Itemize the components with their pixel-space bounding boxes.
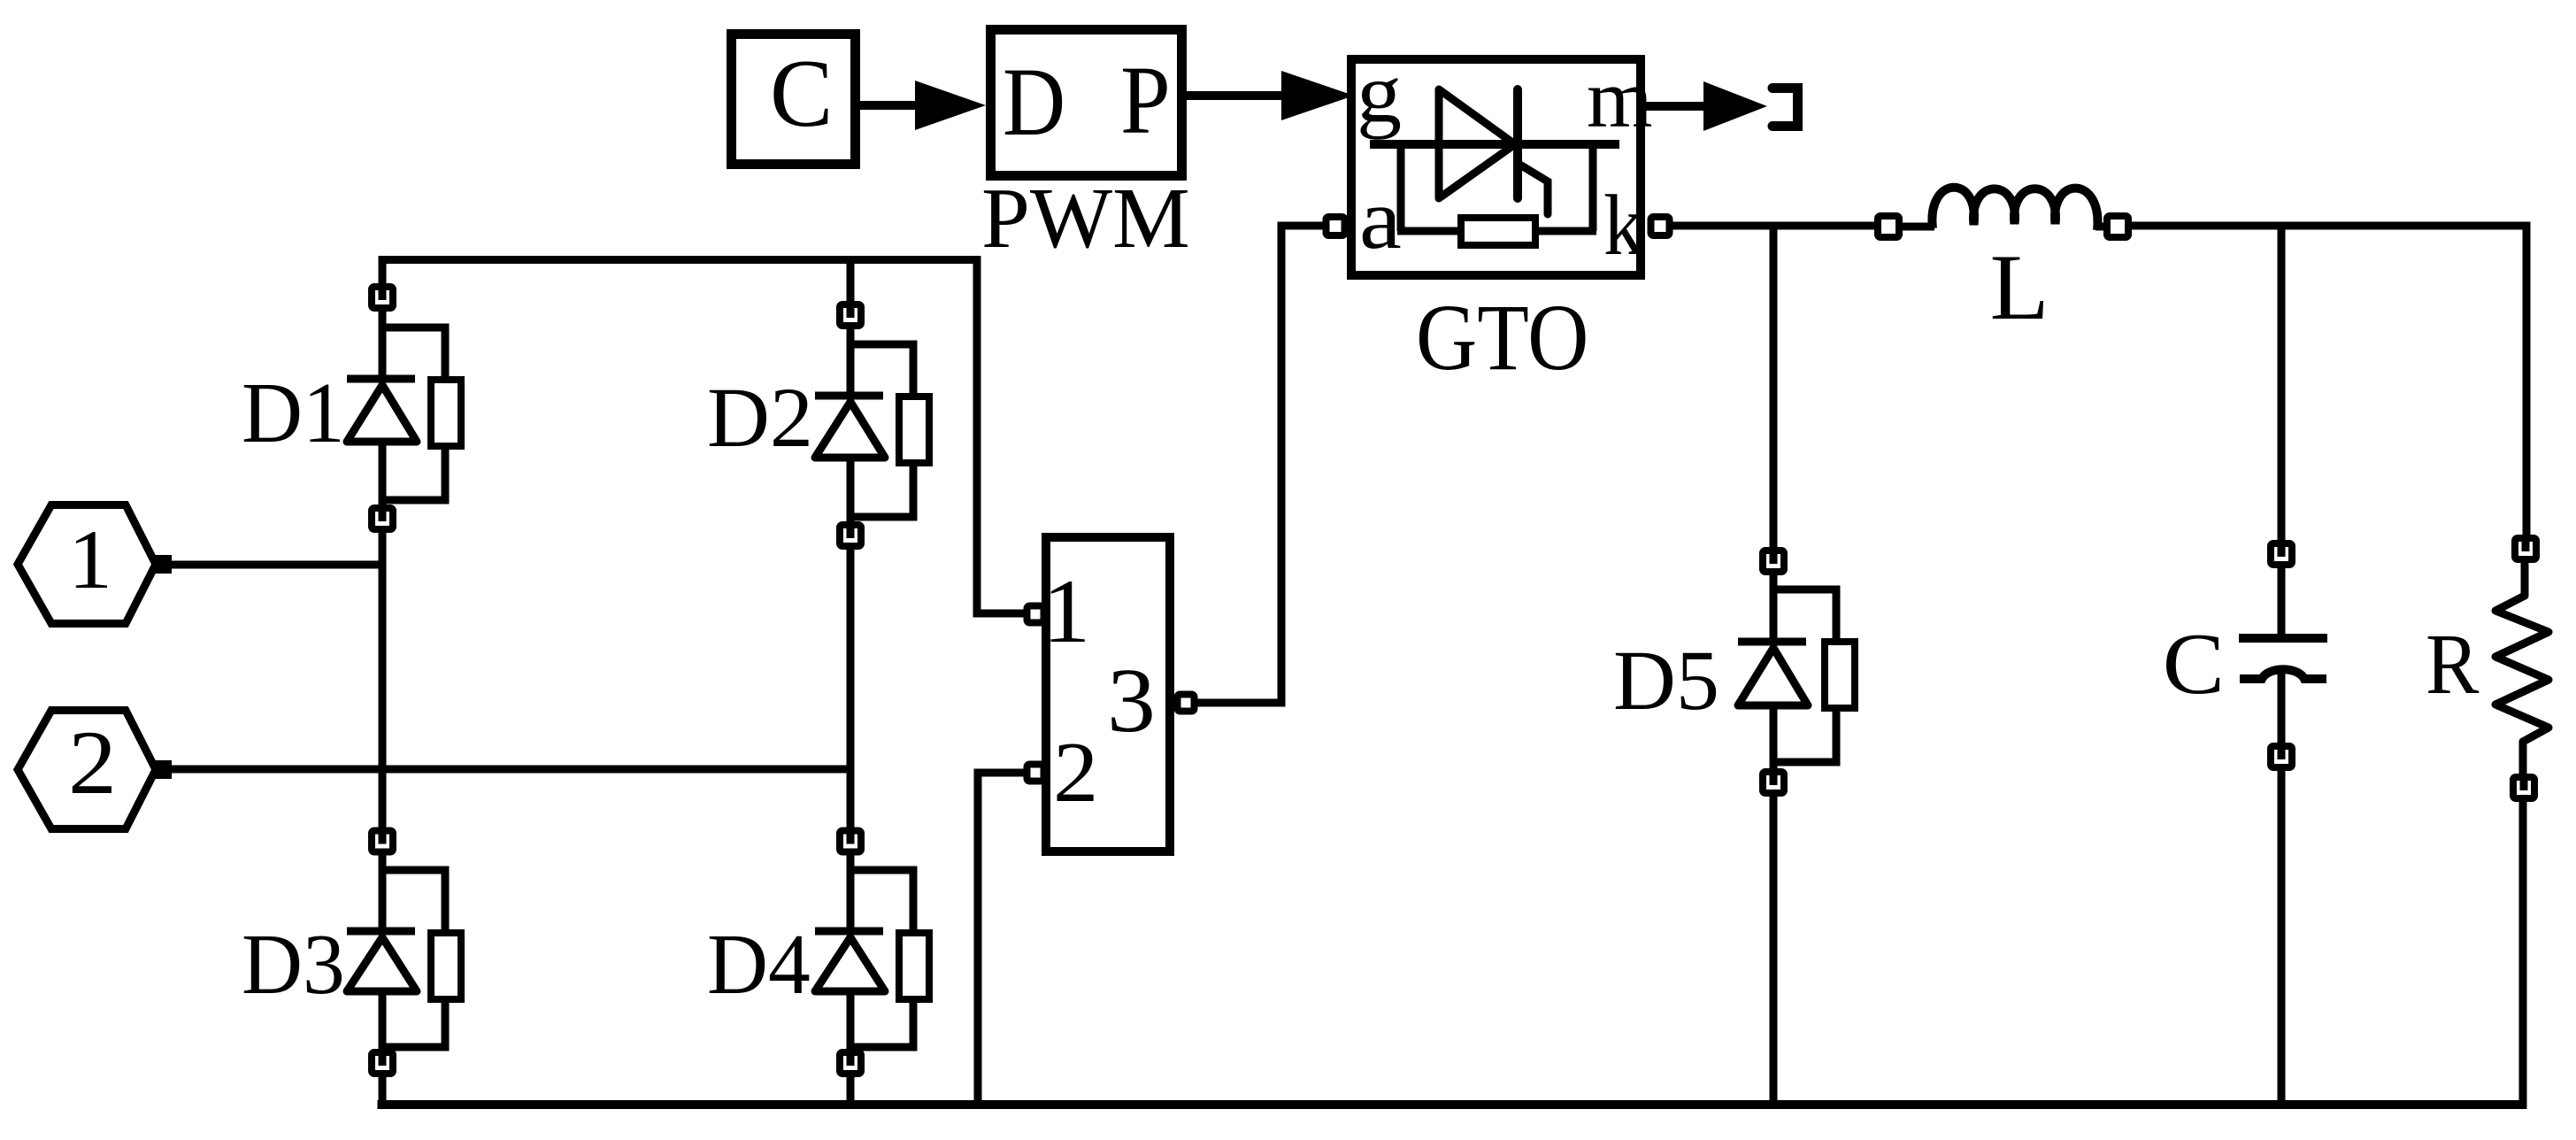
diode D2 with parallel snubber resistor (815, 326, 929, 525)
bottom rail wire (378, 1100, 2527, 1109)
PWM generator block with ports D and P (991, 30, 1182, 176)
capacitor C branch (2239, 222, 2327, 1109)
port square D4 anode-side (840, 831, 861, 852)
port square D1 anode-side (372, 287, 393, 308)
wire inductor to top right corner (2128, 222, 2531, 230)
svg-text:a: a (1359, 172, 1402, 267)
svg-text:2: 2 (1053, 725, 1098, 820)
measurement block with ports 1 2 3 (1042, 537, 1170, 851)
port square D4 cathode-side (840, 1052, 861, 1074)
wire top rail down to D2 (847, 259, 855, 304)
resistor top port square (2515, 538, 2536, 559)
input port 2 hexagon (18, 711, 172, 829)
wire k to inductor (1672, 222, 1878, 230)
block port 2 square (1027, 765, 1044, 782)
diode D4 with parallel snubber resistor (815, 852, 929, 1053)
svg-text:m: m (1587, 53, 1653, 145)
wire D5 down to bottom rail (1770, 793, 1778, 1108)
svg-text:2: 2 (68, 712, 117, 813)
wire block port 2 down to bottom rail (978, 773, 1024, 1109)
svg-text:GTO: GTO (1416, 286, 1588, 390)
input port 1 hexagon (18, 505, 172, 624)
svg-text:g: g (1357, 46, 1402, 140)
svg-text:D2: D2 (707, 370, 813, 465)
svg-text:3: 3 (1107, 650, 1156, 751)
svg-text:k: k (1603, 178, 1644, 273)
capacitor bottom port square (2271, 746, 2292, 767)
port square D3 anode-side (372, 831, 393, 852)
wire m output with arrowhead (1646, 81, 1767, 131)
wire port 2 to bridge right leg (170, 766, 854, 774)
svg-text:C: C (770, 40, 833, 147)
GTO icon thyristor symbol (1370, 89, 1619, 214)
GTO icon snubber resistor (1397, 144, 1596, 245)
svg-text:P: P (1120, 46, 1171, 154)
inductor left port square (1878, 216, 1899, 237)
resistor bottom port square (2513, 777, 2534, 798)
GTO port a square (1326, 217, 1345, 235)
diode D1 with parallel snubber resistor (347, 308, 461, 508)
terminator symbol (1772, 89, 1798, 127)
svg-text:C: C (2163, 616, 2225, 712)
wire elbow into block port 1 (977, 609, 1024, 613)
top rail wire from bridge to block port 1 (382, 260, 977, 610)
svg-text:D5: D5 (1613, 633, 1719, 728)
inductor L (1878, 188, 2128, 237)
GTO port k square (1651, 217, 1670, 235)
capacitor top port square (2271, 543, 2292, 565)
bridge left leg wire segments (379, 533, 387, 1108)
wire port 1 to bridge left leg (170, 561, 386, 569)
svg-text:D3: D3 (242, 917, 345, 1013)
svg-text:L: L (1990, 235, 2049, 339)
svg-text:1: 1 (68, 512, 112, 606)
port square D1 cathode-side (372, 508, 393, 529)
block port 1 square (1027, 606, 1044, 623)
svg-text:R: R (2426, 617, 2480, 712)
constant block C (732, 35, 856, 165)
svg-text:D4: D4 (707, 917, 811, 1013)
port square D5 cathode-side (1763, 772, 1784, 793)
bridge right leg wire segments (847, 548, 855, 1108)
port square D2 anode-side (840, 304, 861, 326)
wire corner down to resistor R (2523, 222, 2531, 538)
wire block port 3 up to GTO port a (1197, 226, 1324, 703)
signal wire PWM to GTO gate with arrowhead (1184, 71, 1354, 120)
wire k junction down to D5 (1770, 222, 1778, 549)
resistor R branch (2495, 535, 2549, 1109)
svg-text:1: 1 (1042, 561, 1090, 662)
signal wire C to PWM with arrowhead (860, 81, 986, 130)
diode D3 with parallel snubber resistor (347, 852, 461, 1053)
svg-text:D1: D1 (242, 366, 345, 461)
block port 3 square (1178, 695, 1195, 712)
port square D2 cathode-side (840, 525, 861, 546)
svg-text:PWM: PWM (981, 171, 1190, 266)
port square D3 cathode-side (372, 1052, 393, 1074)
port square D5 anode-side (1763, 551, 1784, 572)
diode D5 with parallel snubber resistor (1738, 572, 1855, 772)
GTO thyristor block (1351, 46, 1653, 275)
svg-text:D: D (1003, 48, 1065, 156)
inductor right port square (2107, 216, 2128, 237)
